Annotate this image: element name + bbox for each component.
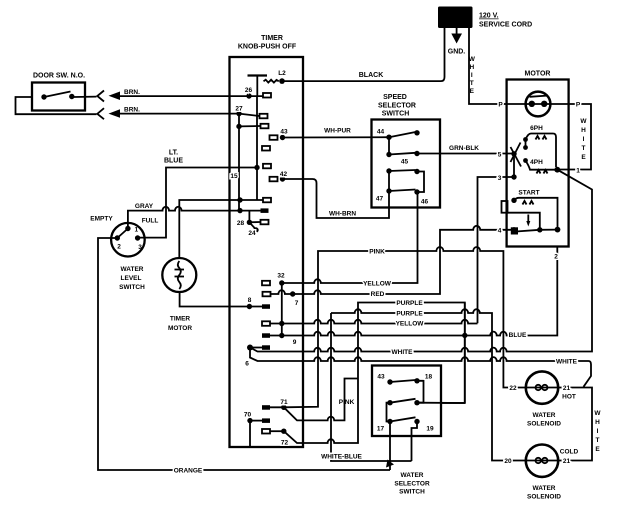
speed selector link 44-45 — [388, 137, 390, 154]
motor circle brushes — [529, 96, 548, 107]
wire GRN-BLK speed selector to motor 5 — [417, 153, 514, 155]
label water solenoid hot — [527, 412, 561, 428]
timer contact stub row200 — [263, 198, 271, 203]
svg-text:WATER: WATER — [121, 266, 144, 273]
timer contact stub 43 — [270, 135, 278, 140]
timer link vertical 32-9 — [281, 283, 283, 336]
motor 4PH lead — [526, 161, 558, 170]
svg-text:LT.: LT. — [169, 150, 178, 157]
water level switch blade — [117, 230, 127, 239]
water level switch circle — [111, 223, 145, 257]
wire LT.BLUE water level 3 to timer 15 — [138, 168, 257, 238]
svg-text:28: 28 — [237, 220, 245, 227]
timer motor winding symbol — [175, 261, 185, 289]
svg-text:SWITCH: SWITCH — [399, 489, 425, 496]
svg-text:24: 24 — [248, 230, 256, 237]
timer contact stub row148 — [262, 146, 270, 151]
svg-text:21: 21 — [563, 458, 571, 465]
motor notch rect — [502, 201, 508, 213]
wire YELLOW timer32 to speed selector 46 — [282, 192, 418, 283]
svg-text:9: 9 — [293, 339, 297, 346]
wire motor start to 4 blade — [540, 229, 558, 231]
motor 4PH arrows — [537, 170, 548, 174]
svg-text:P: P — [498, 102, 503, 109]
cold solenoid coil — [526, 458, 558, 463]
wire door switch right lead — [74, 96, 97, 98]
svg-text:ORANGE: ORANGE — [174, 468, 203, 475]
svg-text:GND.: GND. — [448, 49, 466, 56]
svg-text:FULL: FULL — [142, 218, 159, 225]
svg-text:18: 18 — [425, 374, 433, 381]
svg-text:PINK: PINK — [339, 399, 355, 406]
wire WHITE lower timer6 to solenoid 21 — [250, 348, 591, 387]
motor centrifugal switch strokes — [511, 143, 522, 167]
speed selector contact 44 — [386, 130, 419, 140]
timer contact stub 8 — [262, 304, 270, 309]
svg-text:WHITE: WHITE — [392, 349, 414, 356]
svg-text:4PH: 4PH — [530, 159, 543, 166]
motor start blade — [516, 227, 543, 232]
svg-text:BLUE: BLUE — [164, 158, 183, 165]
wire timer71 diagonal to water selector common — [284, 379, 358, 421]
svg-text:32: 32 — [277, 273, 285, 280]
timer motor circle — [162, 258, 196, 292]
wire ORANGE water level 2 to water selector — [98, 238, 390, 470]
svg-text:42: 42 — [280, 171, 288, 178]
wire PURPLE lower to hot solenoid 22 — [331, 309, 526, 460]
terminal 24 dot — [249, 222, 258, 232]
svg-text:70: 70 — [244, 412, 252, 419]
svg-text:P: P — [576, 102, 581, 109]
terminal dot GRAY row — [237, 208, 242, 213]
terminal 15 dot — [254, 165, 259, 170]
terminal 27 dot — [236, 111, 241, 116]
wire BLACK L2 to service cord — [282, 28, 445, 81]
motor start blade square — [511, 227, 518, 234]
label water level switch — [119, 266, 145, 291]
wire hot 21 to right bus — [558, 388, 592, 461]
label timer — [238, 35, 297, 51]
water selector contact row2 — [387, 399, 419, 406]
water level switch contact 1 — [125, 226, 130, 231]
wire V331 purple lower to white-blue — [331, 313, 412, 461]
terminal 71 dot — [281, 405, 286, 410]
svg-text:6PH: 6PH — [530, 125, 543, 132]
wire motor 3 to trio yellow — [478, 177, 515, 323]
svg-text:EMPTY: EMPTY — [90, 216, 113, 223]
terminal 7 dot — [290, 291, 295, 296]
hot water solenoid circle — [526, 371, 558, 403]
svg-text:PURPLE: PURPLE — [396, 300, 423, 307]
svg-text:22: 22 — [509, 385, 517, 392]
svg-text:COLD: COLD — [560, 449, 579, 456]
speed selector contact 45 — [386, 151, 419, 157]
svg-text:3: 3 — [498, 175, 502, 182]
svg-text:YELLOW: YELLOW — [363, 281, 392, 288]
label speed selector — [378, 94, 416, 118]
svg-text:HOT: HOT — [562, 394, 576, 401]
timer contact stub 9 — [262, 333, 270, 338]
wire timer motor bottom lead to timer 8 — [180, 292, 262, 307]
connector chevron lower — [97, 108, 104, 119]
wire 72 stub — [270, 430, 284, 432]
connector arrow lower BRN — [109, 109, 121, 118]
wire purple1 down segment V465 — [464, 303, 466, 404]
motor START contact lead — [514, 198, 558, 230]
svg-text:MOTOR: MOTOR — [168, 325, 192, 332]
connector chevron upper — [97, 91, 104, 102]
timer contact stub 71 — [262, 405, 270, 410]
wire WHITE upper timer6 to motor junction — [250, 170, 592, 352]
timer contact stub row323 — [262, 321, 270, 326]
svg-text:7: 7 — [295, 300, 299, 307]
svg-text:L2: L2 — [278, 70, 286, 77]
svg-text:SWITCH: SWITCH — [119, 284, 145, 291]
svg-text:19: 19 — [426, 426, 434, 433]
svg-text:20: 20 — [504, 458, 512, 465]
svg-text:SERVICE CORD: SERVICE CORD — [479, 22, 532, 29]
timer link dot y335 — [279, 333, 284, 338]
svg-text:6: 6 — [245, 361, 249, 368]
connector arrow upper BRN — [109, 92, 121, 101]
svg-text:PINK: PINK — [369, 249, 385, 256]
terminal L2 dot — [279, 78, 285, 84]
svg-text:GRN-BLK: GRN-BLK — [449, 145, 479, 152]
timer contact stub 32 — [262, 281, 270, 286]
svg-text:SOLENOID: SOLENOID — [527, 494, 561, 501]
svg-text:120 V.: 120 V. — [479, 13, 499, 20]
timer contact stub 28 — [249, 220, 268, 225]
label service cord — [479, 13, 532, 29]
svg-text:TIMER: TIMER — [170, 316, 191, 323]
svg-text:SELECTOR: SELECTOR — [394, 481, 430, 488]
svg-text:43: 43 — [377, 374, 385, 381]
svg-text:2: 2 — [554, 254, 558, 261]
timer contact stub L2 — [264, 80, 279, 83]
wire RED timer7 to motor 4 — [271, 226, 514, 294]
wire WH-PUR timer43 to speed selector 44 — [283, 136, 390, 138]
speed selector contact 47-46 — [386, 188, 419, 194]
timer inner vertical B — [256, 96, 258, 200]
svg-text:72: 72 — [281, 440, 289, 447]
timer contact stub 27 — [239, 114, 268, 119]
svg-text:KNOB-PUSH OFF: KNOB-PUSH OFF — [238, 44, 297, 51]
water selector bottom exit left — [389, 422, 391, 471]
timer contact stub 15 — [263, 164, 271, 169]
label water selector switch — [394, 472, 430, 496]
svg-text:WH-BRN: WH-BRN — [329, 211, 356, 218]
water level switch contact 3 — [135, 235, 140, 240]
wire trio YELLOW timer row323 to motor 3 — [270, 320, 478, 324]
motor 6PH arrows — [536, 136, 547, 140]
door switch contacts — [41, 92, 74, 100]
motor START dot — [511, 198, 516, 203]
svg-text:MOTOR: MOTOR — [525, 71, 551, 78]
service cord plug — [438, 7, 473, 29]
wire 70 down to timer bottom — [249, 421, 251, 446]
svg-text:WATER: WATER — [533, 485, 556, 492]
speed selector link row3-47 — [388, 171, 390, 191]
svg-text:8: 8 — [248, 297, 252, 304]
motor 6PH winding lead — [526, 134, 557, 168]
terminal 26 dot — [246, 93, 251, 98]
timer contact stub 26 — [263, 93, 271, 98]
junction dot BLUE purple1 — [462, 333, 467, 338]
timer box — [230, 57, 304, 447]
motor centrifugal contact dots — [523, 137, 528, 163]
svg-text:27: 27 — [235, 106, 243, 113]
timer contact stub row126 — [239, 124, 269, 129]
wire timer72 to PURPLE upper — [284, 303, 465, 444]
svg-text:WH-PUR: WH-PUR — [324, 128, 351, 135]
speed selector switch box — [372, 120, 441, 208]
svg-text:BRN.: BRN. — [124, 89, 140, 96]
svg-text:WHITE: WHITE — [556, 359, 578, 366]
svg-text:DOOR SW. N.O.: DOOR SW. N.O. — [33, 73, 85, 80]
ground arrow — [451, 28, 462, 44]
svg-text:43: 43 — [280, 129, 288, 136]
speed selector contact row3 — [386, 168, 419, 174]
motor terminal 4 dot — [511, 227, 516, 232]
wire timer motor top lead to row200 — [179, 200, 263, 259]
svg-text:45: 45 — [401, 159, 409, 166]
wire GRAY water level 1 to timer — [128, 207, 261, 228]
wire water selector row2 exit right — [417, 402, 465, 404]
wire BRN lower to timer 27 — [117, 113, 239, 115]
svg-text:BLACK: BLACK — [359, 72, 384, 79]
wire PINK timer71 to cold solenoid 20 — [270, 247, 526, 407]
timer contact stub 72 — [262, 429, 270, 434]
motor circle — [526, 92, 551, 117]
motor start actuator arrow — [526, 215, 530, 227]
timer contact stub 6 — [250, 345, 270, 350]
svg-text:RED: RED — [371, 291, 385, 298]
svg-text:1: 1 — [135, 227, 139, 234]
svg-text:26: 26 — [245, 87, 253, 94]
terminal 72 dot — [281, 429, 286, 434]
water selector left link row2-row3 — [387, 403, 391, 422]
timer cam T-bar contact — [248, 76, 268, 97]
svg-text:2: 2 — [117, 244, 121, 251]
timer link dot y323 — [279, 321, 284, 326]
motor link 5-3 — [513, 154, 515, 177]
cold water solenoid circle — [526, 445, 558, 477]
motor box — [507, 80, 569, 247]
water selector contact row1 43-18 — [387, 378, 419, 385]
wire BRN upper to timer 26 — [117, 95, 263, 97]
motor START arrows — [523, 201, 534, 205]
svg-text:WATER: WATER — [533, 412, 556, 419]
svg-text:BRN.: BRN. — [124, 107, 140, 114]
svg-text:WATER: WATER — [401, 472, 424, 479]
motor start switch frame — [507, 213, 539, 228]
svg-text:47: 47 — [376, 196, 384, 203]
wire 70 stub — [250, 420, 262, 422]
motor junction 2 dot — [555, 227, 561, 233]
terminal 8 dot — [247, 304, 252, 309]
svg-text:3: 3 — [138, 244, 142, 251]
speed selector right link — [417, 172, 424, 193]
svg-text:GRAY: GRAY — [135, 203, 154, 210]
wire BLUE timer9 to motor 2 — [270, 247, 557, 336]
timer contact stub 7 — [263, 292, 271, 297]
motor terminal 5 dot — [511, 151, 516, 156]
svg-text:4: 4 — [498, 228, 502, 235]
wire WHITE service cord to motor P — [469, 28, 591, 170]
svg-text:SPEED: SPEED — [383, 94, 407, 101]
wire WH-BRN timer42 to speed selector 47 — [283, 179, 390, 218]
label water solenoid cold — [527, 485, 561, 501]
door switch SW1 box — [32, 83, 85, 111]
terminal 28 dot — [247, 211, 252, 225]
timer contact stub 70 — [262, 418, 270, 423]
svg-text:44: 44 — [377, 129, 385, 136]
svg-text:PURPLE: PURPLE — [396, 311, 423, 318]
svg-text:71: 71 — [280, 399, 288, 406]
svg-text:SOLENOID: SOLENOID — [527, 421, 561, 428]
svg-text:21: 21 — [563, 385, 571, 392]
timer row dot y126 — [236, 124, 241, 129]
water level switch contact 2 — [115, 235, 120, 240]
terminal 43 dot — [280, 135, 285, 140]
terminal 32 dot — [279, 280, 284, 285]
svg-text:46: 46 — [421, 199, 429, 206]
svg-text:1: 1 — [576, 168, 580, 175]
timer contact stub 42 — [270, 177, 278, 182]
terminal dot row200 — [237, 197, 242, 202]
hot solenoid coil — [526, 385, 558, 390]
terminal 42 dot — [280, 176, 285, 181]
svg-text:BLUE: BLUE — [509, 332, 527, 339]
wire door switch left loop — [16, 97, 97, 114]
timer contact stub GRAY row — [261, 208, 269, 213]
svg-text:SWITCH: SWITCH — [382, 111, 410, 118]
label timer motor — [168, 316, 192, 333]
svg-text:5: 5 — [498, 152, 502, 159]
svg-text:WHITE-BLUE: WHITE-BLUE — [321, 454, 362, 461]
svg-text:SELECTOR: SELECTOR — [378, 103, 416, 110]
water selector right link row1-row2 — [417, 381, 424, 403]
motor junction dot — [554, 167, 560, 173]
water selector bottom exit right — [412, 422, 418, 462]
water selector switch box — [372, 366, 441, 437]
water selector pointer arrow — [386, 460, 394, 468]
water selector contact row3 17-19 — [387, 417, 419, 424]
svg-text:LEVEL: LEVEL — [121, 275, 142, 282]
svg-text:TIMER: TIMER — [261, 35, 283, 42]
svg-text:15: 15 — [230, 173, 238, 180]
motor terminal 3 dot — [511, 174, 516, 179]
label LT BLUE — [164, 150, 183, 165]
terminal 70 dot — [247, 418, 252, 423]
terminal 6 dot — [247, 345, 253, 351]
svg-text:YELLOW: YELLOW — [396, 321, 425, 328]
timer inner vertical A — [238, 114, 240, 211]
svg-text:17: 17 — [377, 426, 385, 433]
svg-text:START: START — [518, 190, 539, 197]
